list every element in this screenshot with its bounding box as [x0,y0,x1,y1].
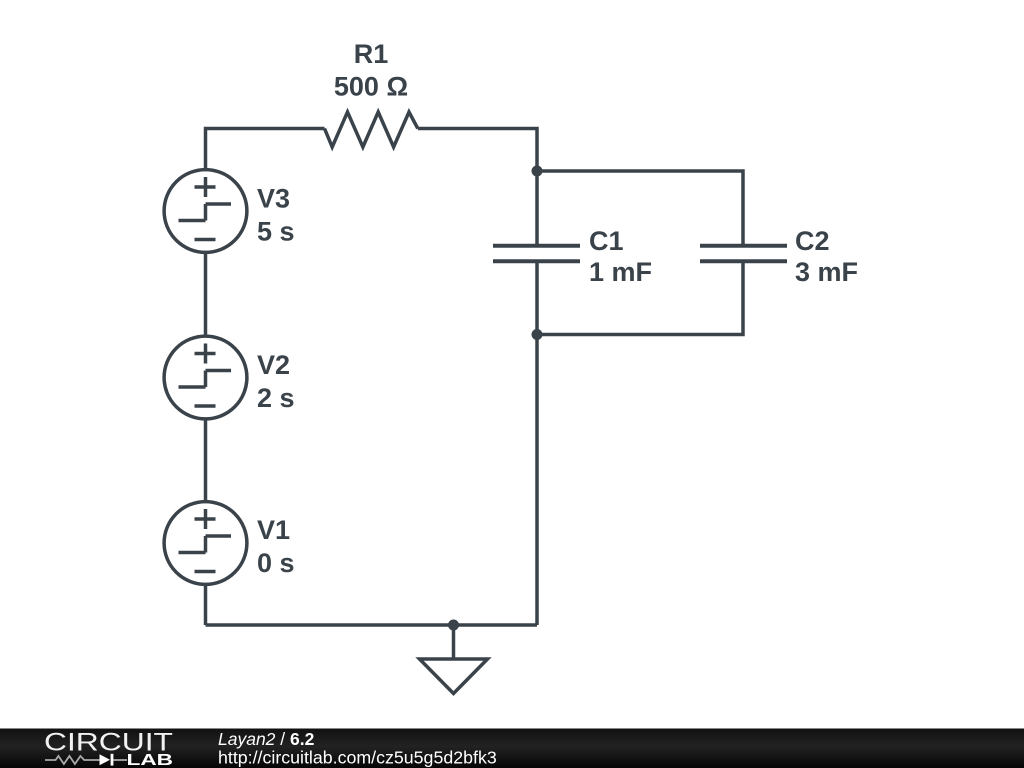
wire bottom rail [206,623,538,627]
svg-text:Layan2 / 6.2: Layan2 / 6.2 [218,729,315,749]
capacitor C2 [700,246,787,262]
resistor R1 [325,112,418,147]
svg-text:0 s: 0 s [257,548,295,578]
svg-text:http://circuitlab.com/cz5u5g5d: http://circuitlab.com/cz5u5g5d2bfk3 [218,748,497,768]
voltage source V2 [164,336,247,419]
svg-text:2 s: 2 s [257,383,295,413]
wire R1 right lead to top-right corner [418,129,537,247]
svg-text:5 s: 5 s [257,217,295,247]
CircuitLab logo schematic (resistor and diode) [45,756,100,764]
svg-text:LAB: LAB [127,752,174,768]
voltage source V1 [164,502,247,585]
node junction bottom (C1/C2 bottom) [532,329,543,340]
capacitor C1 [493,246,580,262]
footer bar [0,729,1024,768]
node junction top (C1/C2 top) [532,166,543,177]
wire top-left horizontal (node to R1 left lead) [206,129,325,171]
svg-text:V3: V3 [257,184,290,214]
svg-text:3 mF: 3 mF [795,257,858,287]
ground [420,625,488,694]
wire V3 to V2 [204,252,208,336]
node junction ground [448,620,459,631]
svg-text:C1: C1 [589,226,624,256]
svg-text:V2: V2 [257,350,290,380]
wire C2 bottom to branch return [537,261,743,334]
wire V2 to V1 [204,419,208,502]
svg-text:500 Ω: 500 Ω [334,72,408,102]
voltage source V3 [164,170,247,253]
svg-text:R1: R1 [354,39,389,69]
svg-text:V1: V1 [257,515,290,545]
wire V1 to bottom rail [204,584,208,625]
svg-text:1 mF: 1 mF [589,257,652,287]
wire right vertical below C1 [535,261,539,625]
svg-text:C2: C2 [795,226,830,256]
wire branch to C2 top [537,171,743,246]
